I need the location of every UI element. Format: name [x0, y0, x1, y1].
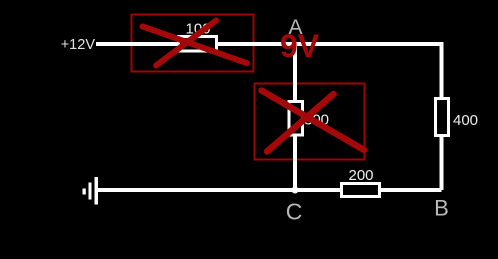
svg-text:C: C: [286, 199, 303, 225]
svg-text:200: 200: [348, 167, 373, 184]
svg-text:B: B: [434, 196, 449, 221]
svg-text:9V: 9V: [280, 28, 320, 64]
svg-text:+12V: +12V: [61, 37, 96, 53]
resistor R1 body: [179, 37, 217, 52]
resistor R2 body (200): [342, 184, 380, 197]
wire: right vertical branch: [440, 42, 444, 190]
red deletion box around R3: [255, 84, 365, 160]
resistor R3 body (300): [289, 102, 303, 136]
wire: +12V to node A to top-right corner: [96, 42, 442, 46]
red X over R3: [262, 91, 365, 152]
ground symbol: [83, 177, 99, 205]
svg-text:400: 400: [453, 112, 478, 129]
junction node C dot: [292, 187, 299, 194]
red X over R1: [143, 20, 248, 65]
wire: bottom from ground to B: [97, 188, 442, 192]
red deletion box around R1: [132, 15, 254, 72]
wire: middle vertical branch A to C: [293, 44, 297, 190]
resistor R4 body (400): [436, 99, 449, 136]
